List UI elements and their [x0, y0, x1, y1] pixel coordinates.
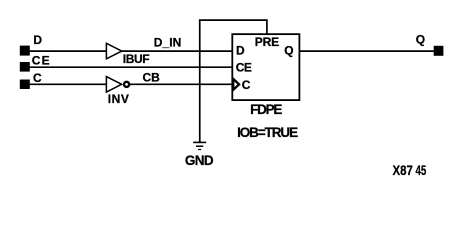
svg-text:CE: CE	[32, 54, 50, 68]
svg-text:INV: INV	[108, 92, 129, 106]
svg-text:CB: CB	[143, 70, 161, 84]
svg-text:Q: Q	[284, 43, 293, 57]
svg-text:D_IN: D_IN	[154, 35, 182, 49]
svg-text:IOB=TRUE: IOB=TRUE	[237, 125, 298, 140]
svg-text:D: D	[236, 43, 245, 57]
svg-text:45: 45	[416, 162, 427, 178]
svg-text:Q: Q	[416, 32, 425, 46]
svg-text:GND: GND	[185, 153, 214, 168]
svg-text:X87: X87	[393, 162, 414, 178]
svg-text:D: D	[33, 33, 42, 47]
svg-text:PRE: PRE	[255, 35, 279, 49]
svg-text:CE: CE	[236, 60, 252, 74]
svg-text:C: C	[242, 78, 251, 92]
svg-text:IBUF: IBUF	[123, 52, 150, 66]
svg-text:C: C	[33, 71, 42, 85]
svg-text:FDPE: FDPE	[250, 102, 282, 117]
